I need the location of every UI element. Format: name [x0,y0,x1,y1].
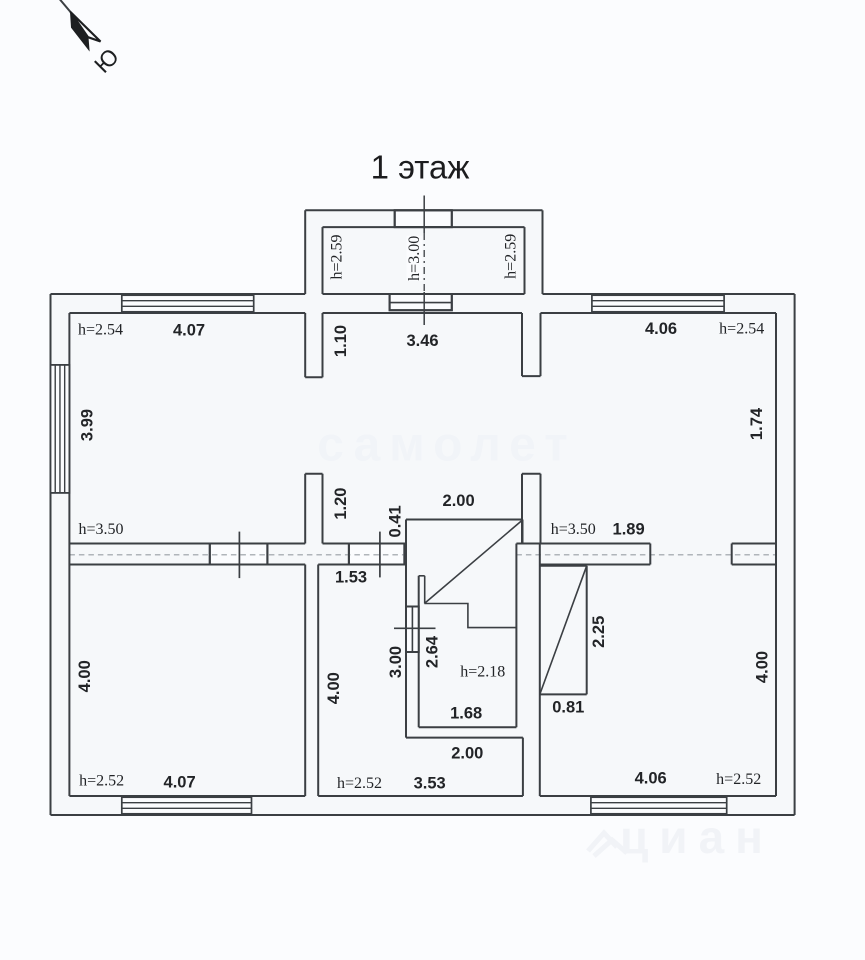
svg-text:h=2.18: h=2.18 [460,663,505,680]
svg-text:4.00: 4.00 [325,672,343,704]
svg-text:h=2.59: h=2.59 [328,234,345,279]
svg-text:4.06: 4.06 [635,770,667,788]
svg-text:4.00: 4.00 [76,660,94,692]
svg-text:циан: циан [620,811,774,863]
svg-text:h=3.00: h=3.00 [406,236,423,281]
svg-text:3.53: 3.53 [414,774,446,792]
svg-text:h=2.52: h=2.52 [337,775,382,792]
svg-text:1.20: 1.20 [332,488,350,520]
svg-text:1.74: 1.74 [748,407,766,440]
svg-text:1 этаж: 1 этаж [371,149,470,186]
svg-text:самолет: самолет [317,419,576,472]
svg-text:h=2.54: h=2.54 [78,322,123,339]
svg-text:0.41: 0.41 [387,505,405,537]
svg-text:2.00: 2.00 [451,745,483,763]
svg-text:3.00: 3.00 [387,646,405,678]
svg-text:4.06: 4.06 [645,320,677,338]
svg-text:h=3.50: h=3.50 [78,521,123,538]
svg-text:1.89: 1.89 [613,521,645,539]
svg-text:h=2.59: h=2.59 [503,234,520,279]
svg-text:2.25: 2.25 [590,616,608,648]
svg-text:h=2.52: h=2.52 [79,773,124,790]
svg-text:h=3.50: h=3.50 [551,521,596,538]
svg-text:2.64: 2.64 [424,635,442,668]
svg-text:1.53: 1.53 [335,569,367,587]
svg-text:4.00: 4.00 [754,651,772,683]
svg-text:h=2.54: h=2.54 [719,321,764,338]
svg-text:3.46: 3.46 [406,332,438,350]
svg-text:3.99: 3.99 [78,409,96,441]
svg-text:h=2.52: h=2.52 [716,771,761,788]
svg-text:1.10: 1.10 [332,325,350,357]
svg-text:1.68: 1.68 [450,705,482,723]
svg-text:0.81: 0.81 [552,699,584,717]
svg-text:4.07: 4.07 [173,322,205,340]
svg-text:4.07: 4.07 [164,773,196,791]
svg-text:2.00: 2.00 [443,492,475,510]
